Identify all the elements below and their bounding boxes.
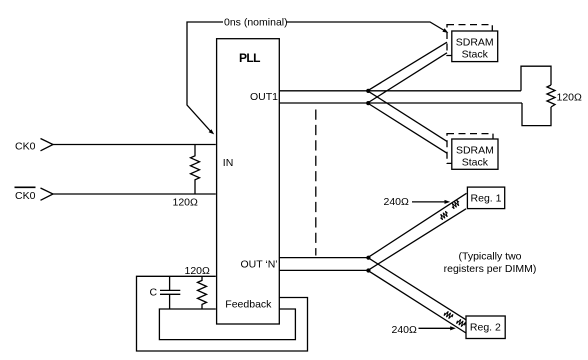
SDRAM stack 1 solid box bbox=[452, 31, 498, 62]
node junction dot OUT1 upper bbox=[366, 89, 370, 93]
node junction dot OUT N lower bbox=[366, 268, 370, 272]
wire OUT N upper trace bbox=[279, 257, 368, 259]
wire CK0-bar input bbox=[53, 193, 216, 195]
svg-text:Reg. 1: Reg. 1 bbox=[471, 193, 502, 205]
node arrowhead at SDRAM stack bbox=[442, 28, 448, 33]
svg-text:CK0: CK0 bbox=[15, 190, 36, 202]
wire fan lower dot to top SDRAM stack bbox=[368, 53, 448, 103]
svg-text:120Ω: 120Ω bbox=[185, 265, 211, 277]
SDRAM stack 2 dashed box bbox=[447, 134, 493, 164]
wire fan lower dot to Reg 2 bbox=[368, 270, 466, 333]
wire CK0 input bbox=[53, 144, 216, 146]
svg-text:240Ω: 240Ω bbox=[384, 196, 410, 208]
node CK0 chevron bbox=[41, 139, 54, 151]
node arrowhead at IN bbox=[209, 129, 215, 134]
node junction dot OUT N upper bbox=[366, 256, 370, 260]
wire fan lower dot to Reg 1 bbox=[368, 209, 466, 271]
wire fan lower dot to bottom SDRAM stack bbox=[368, 103, 448, 153]
wire OUT N lower trace bbox=[279, 269, 368, 271]
wire fan upper dot to bottom SDRAM stack bbox=[368, 91, 448, 142]
svg-text:Stack: Stack bbox=[462, 157, 489, 169]
capacitor C feedback bbox=[160, 276, 180, 309]
wire 0ns nominal left branch bbox=[187, 22, 223, 132]
wire arrow 240 ohm bottom label bbox=[419, 327, 451, 329]
wire fan upper dot to top SDRAM stack bbox=[368, 42, 448, 91]
Reg 1 box bbox=[467, 187, 504, 209]
svg-text:Feedback: Feedback bbox=[225, 298, 272, 310]
svg-text:CK0: CK0 bbox=[15, 141, 36, 153]
svg-text:registers per DIMM): registers per DIMM) bbox=[444, 263, 537, 275]
resistor 240 ohm on Reg 1 upper line bbox=[452, 200, 459, 209]
svg-text:Stack: Stack bbox=[462, 49, 489, 61]
wire 0ns nominal right branch bbox=[286, 22, 444, 31]
svg-text:SDRAM: SDRAM bbox=[456, 145, 494, 157]
svg-text:120Ω: 120Ω bbox=[173, 196, 199, 208]
node junction dot OUT1 lower bbox=[366, 101, 370, 105]
resistor R3 120 ohm feedback bbox=[198, 276, 207, 309]
wire dashed feedback reference line bbox=[315, 110, 317, 256]
SDRAM stack 2 solid box bbox=[452, 139, 498, 169]
wire fan upper dot to Reg 2 bbox=[368, 258, 466, 320]
svg-text:OUT ‘N’: OUT ‘N’ bbox=[241, 258, 278, 270]
svg-text:PLL: PLL bbox=[239, 51, 260, 65]
svg-text:240Ω: 240Ω bbox=[392, 324, 418, 336]
wire arrow 240 ohm top label bbox=[412, 201, 446, 203]
svg-text:C: C bbox=[150, 286, 158, 298]
SDRAM stack 1 dashed box bbox=[447, 25, 492, 56]
svg-text:Reg. 2: Reg. 2 bbox=[470, 321, 501, 333]
resistor R2 zigzag bbox=[547, 85, 555, 107]
Reg 2 box bbox=[466, 316, 505, 339]
svg-text:120Ω: 120Ω bbox=[557, 91, 583, 103]
svg-text:0ns (nominal): 0ns (nominal) bbox=[224, 17, 288, 29]
resistor 240 ohm on Reg 1 lower line bbox=[440, 211, 447, 220]
wire feedback inner loop bbox=[159, 309, 295, 340]
wire OUT1 lower trace to terminator bbox=[279, 102, 522, 104]
svg-text:SDRAM: SDRAM bbox=[456, 37, 494, 49]
svg-text:OUT1: OUT1 bbox=[250, 91, 278, 103]
wire fan upper dot to Reg 1 bbox=[368, 193, 467, 257]
resistor R2 120 ohm terminator outline bbox=[521, 66, 551, 125]
svg-text:IN: IN bbox=[223, 157, 234, 169]
wire OUT1 upper trace to terminator bbox=[279, 90, 521, 92]
PLL U1 box bbox=[217, 39, 280, 324]
node overline CK0-bar bbox=[15, 186, 36, 188]
resistor 240 ohm on Reg 2 lower line bbox=[457, 319, 466, 326]
node CK0-bar chevron bbox=[41, 188, 54, 200]
svg-text:(Typically two: (Typically two bbox=[458, 251, 521, 263]
node arrowhead 240 top bbox=[445, 200, 451, 204]
node arrowhead 240 bottom bbox=[450, 326, 456, 330]
wire feedback outer loop bbox=[137, 276, 308, 351]
resistor R1 120 ohm input termination bbox=[191, 145, 200, 195]
resistor 240 ohm on Reg 2 upper line bbox=[444, 311, 453, 318]
